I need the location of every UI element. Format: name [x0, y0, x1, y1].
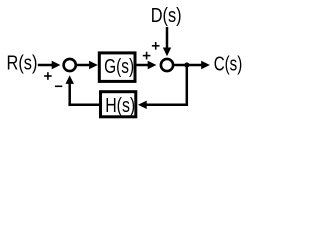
svg-text:C(s): C(s)	[214, 53, 243, 76]
svg-text:R(s): R(s)	[7, 52, 38, 75]
svg-text:G(s): G(s)	[104, 55, 134, 78]
svg-text:H(s): H(s)	[105, 94, 135, 117]
svg-text:D(s): D(s)	[151, 4, 182, 27]
